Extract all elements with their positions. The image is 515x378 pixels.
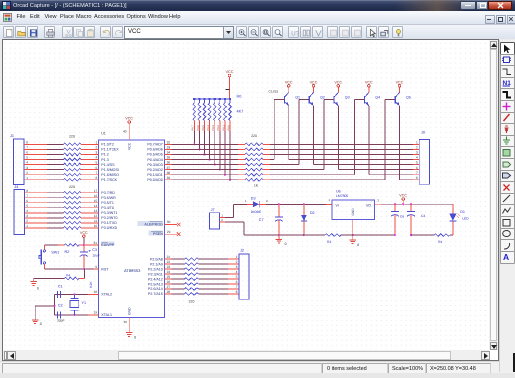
power VCC at EA [83, 235, 86, 238]
svg-text:P3.2/INT0: P3.2/INT0 [101, 216, 117, 220]
MDI child buttons [485, 15, 495, 25]
svg-text:8.2K: 8.2K [89, 281, 93, 288]
svg-text:3: 3 [416, 151, 418, 155]
op-amp U1 AT89S53 microcontroller body [99, 140, 165, 318]
ground at crystal [34, 306, 36, 320]
svg-text:3: 3 [26, 214, 28, 218]
connector J0 [419, 139, 429, 184]
svg-text:31: 31 [93, 241, 97, 245]
svg-text:VCC: VCC [399, 194, 407, 198]
svg-text:4: 4 [96, 156, 98, 160]
resistor pack RP1 220 x8 [64, 143, 82, 146]
svg-text:30: 30 [167, 220, 171, 224]
svg-text:26: 26 [167, 280, 171, 284]
diode D2 [303, 204, 305, 215]
svg-text:36: 36 [167, 161, 171, 165]
svg-text:8: 8 [416, 176, 418, 180]
svg-text:P2.2/A10: P2.2/A10 [148, 267, 163, 271]
svg-text:P0.3/AD3: P0.3/AD3 [147, 163, 162, 167]
svg-text:27: 27 [167, 285, 171, 289]
svg-text:U6: U6 [336, 190, 341, 194]
ground at C7 [278, 235, 280, 239]
svg-text:6: 6 [236, 280, 238, 284]
svg-text:VCC: VCC [80, 231, 88, 235]
svg-text:220: 220 [189, 299, 195, 303]
svg-text:VCC: VCC [310, 80, 318, 84]
ground at R4 [33, 278, 35, 281]
svg-text:3: 3 [96, 151, 98, 155]
wire D3 to U6 VI [259, 203, 266, 205]
svg-text:P3.4/T0: P3.4/T0 [101, 206, 114, 210]
svg-text:P2.6/A14: P2.6/A14 [148, 287, 163, 291]
crystal Y1 [74, 294, 76, 298]
svg-text:2: 2 [96, 145, 98, 149]
svg-text:4: 4 [26, 209, 28, 213]
svg-text:P0.5: P0.5 [202, 125, 205, 131]
power VCC at Q5 [398, 85, 401, 88]
svg-text:P2.3/A11: P2.3/A11 [148, 272, 163, 276]
svg-text:P0.4/AD4: P0.4/AD4 [147, 158, 162, 162]
svg-text:J7: J7 [211, 208, 215, 212]
svg-text:1K: 1K [254, 184, 259, 188]
regulator U6 LM7805 [332, 200, 374, 220]
svg-text:P3.7/RD: P3.7/RD [101, 191, 115, 195]
svg-text:C2: C2 [58, 304, 63, 308]
wires R0 to P0 rows with junctions [193, 99, 195, 103]
svg-text:Q5: Q5 [406, 96, 411, 100]
toolbar [0, 25, 515, 39]
svg-text:9: 9 [95, 265, 97, 269]
power VCC at Q1 [287, 85, 290, 88]
diode D3 [253, 201, 259, 207]
svg-text:1: 1 [416, 140, 418, 144]
wire Q5 emitter down [399, 106, 401, 180]
wires P0 rows left of series resistors [172, 143, 239, 145]
capacitor C3 [83, 245, 85, 252]
svg-text:10: 10 [94, 224, 98, 228]
svg-text:P2.1/A9: P2.1/A9 [150, 262, 163, 266]
U1 pin 20 GND stub [128, 318, 130, 333]
svg-text:220: 220 [251, 134, 257, 138]
capacitor C2 [56, 311, 58, 318]
svg-text:4: 4 [26, 161, 28, 165]
svg-text:J0: J0 [421, 130, 425, 134]
right tool palette [499, 40, 515, 372]
svg-text:2: 2 [26, 171, 28, 175]
svg-text:8: 8 [236, 290, 238, 294]
app icon [2, 1, 11, 10]
transistor Q2 [308, 96, 310, 104]
ground at U1 GND [126, 332, 132, 334]
wire J7 pin1 to D3 [220, 216, 225, 218]
svg-text:P2.7/A15: P2.7/A15 [148, 292, 163, 296]
svg-text:10uF: 10uF [92, 254, 100, 258]
svg-text:13: 13 [94, 209, 98, 213]
svg-text:6: 6 [416, 166, 418, 170]
svg-text:P1.0/T2: P1.0/T2 [101, 143, 114, 147]
svg-text:PSEN: PSEN [153, 232, 163, 236]
svg-text:P1.4/SS: P1.4/SS [101, 163, 115, 167]
svg-text:P0.0: P0.0 [227, 125, 230, 131]
svg-text:AT89S53: AT89S53 [124, 268, 141, 273]
wire Q3 base down [323, 99, 325, 169]
svg-text:ALE/PROG: ALE/PROG [144, 222, 163, 226]
svg-text:7: 7 [416, 171, 418, 175]
svg-text:P2.4/A12: P2.4/A12 [148, 277, 163, 281]
svg-text:Q4: Q4 [375, 96, 380, 100]
power VCC at Q4 [368, 85, 371, 88]
wire EA row [44, 244, 58, 246]
svg-text:25: 25 [167, 275, 171, 279]
svg-text:8: 8 [96, 176, 98, 180]
wire Q5 base down [384, 99, 386, 179]
svg-text:VCC: VCC [125, 117, 133, 121]
svg-text:P0.7: P0.7 [192, 125, 195, 131]
svg-text:5: 5 [236, 275, 238, 279]
wire Q2 base down [298, 99, 300, 164]
svg-text:1: 1 [26, 224, 28, 228]
svg-text:J4: J4 [14, 185, 18, 189]
svg-text:GND: GND [128, 307, 132, 315]
svg-text:XTAL2: XTAL2 [101, 293, 112, 297]
U1 pin ALE/PROG [138, 221, 164, 226]
title bar [0, 0, 515, 11]
svg-text:39: 39 [167, 176, 171, 180]
svg-text:22: 22 [167, 260, 171, 264]
svg-text:17: 17 [94, 189, 98, 193]
svg-text:VCC: VCC [226, 70, 234, 74]
svg-text:7: 7 [96, 171, 98, 175]
svg-text:28: 28 [167, 290, 171, 294]
U1 right stubs P0 and P2 with pin numbers [165, 143, 172, 145]
svg-text:5: 5 [26, 156, 28, 160]
svg-text:P1.1/T2EX: P1.1/T2EX [101, 148, 119, 152]
power VCC at Q2 [312, 85, 315, 88]
svg-text:P0.7/AD7: P0.7/AD7 [147, 143, 162, 147]
svg-text:P2.0/A8: P2.0/A8 [150, 257, 163, 261]
svg-text:35: 35 [167, 156, 171, 160]
wire XTAL2 row [55, 293, 88, 295]
svg-text:2: 2 [416, 145, 418, 149]
svg-text:R2: R2 [65, 250, 70, 254]
svg-text:LED: LED [462, 216, 469, 220]
wire Q4 base down [353, 99, 355, 174]
svg-text:32: 32 [167, 140, 171, 144]
svg-text:D1: D1 [460, 210, 465, 214]
svg-text:7: 7 [26, 145, 28, 149]
svg-text:P0.6: P0.6 [197, 125, 200, 131]
connector J1 [13, 139, 24, 185]
svg-text:34: 34 [167, 151, 171, 155]
capacitor C1 [56, 291, 58, 298]
U1 pin 40 VCC stub [128, 124, 130, 141]
wire XTAL1 row [55, 314, 88, 316]
wire Q1 emitter down [288, 106, 290, 160]
transistor Q3 [333, 96, 335, 104]
svg-text:EA/VPP: EA/VPP [101, 243, 115, 247]
grid dots [3, 40, 489, 350]
connector J2 [239, 254, 249, 299]
svg-text:P0.0/AD0: P0.0/AD0 [147, 178, 162, 182]
svg-text:P0.5/AD5: P0.5/AD5 [147, 153, 162, 157]
svg-text:GND: GND [351, 208, 355, 216]
wire U6 GND to rail [352, 220, 354, 236]
svg-text:6: 6 [26, 199, 28, 203]
svg-text:8: 8 [26, 140, 28, 144]
svg-text:VCC: VCC [334, 80, 342, 84]
svg-text:5: 5 [416, 161, 418, 165]
svg-text:11: 11 [94, 219, 98, 223]
svg-text:P3.3/INT1: P3.3/INT1 [101, 211, 117, 215]
U1 left stubs [94, 143, 99, 145]
svg-text:R4: R4 [438, 240, 442, 244]
svg-text:37: 37 [167, 166, 171, 170]
power VCC at regulator output [402, 198, 405, 201]
svg-text:2: 2 [236, 260, 238, 264]
ground at U6 [352, 235, 354, 240]
svg-text:P1.2: P1.2 [101, 153, 108, 157]
wire Q2 emitter down [313, 106, 315, 165]
svg-text:VCC: VCC [128, 142, 132, 150]
svg-text:19: 19 [93, 311, 97, 315]
svg-text:33pF: 33pF [57, 319, 65, 323]
svg-text:15: 15 [94, 199, 98, 203]
svg-text:P0.4: P0.4 [207, 125, 210, 131]
LED D1 [450, 234, 453, 236]
power VCC above R0 [228, 74, 231, 77]
svg-text:P1.6/MISO: P1.6/MISO [101, 173, 119, 177]
black corner artifact [513, 353, 515, 372]
wire Q1 base down [273, 99, 275, 159]
svg-text:D2: D2 [310, 211, 315, 215]
svg-text:R0: R0 [237, 95, 242, 99]
capacitor C4 [410, 204, 412, 211]
svg-text:0: 0 [40, 322, 42, 326]
transistor Q4 [364, 96, 366, 104]
svg-text:C1815: C1815 [269, 90, 279, 94]
connector J4 [14, 190, 25, 235]
combo box [124, 26, 234, 39]
svg-text:P1.3: P1.3 [101, 158, 108, 162]
svg-text:VCC: VCC [365, 80, 373, 84]
svg-text:Y1: Y1 [82, 301, 87, 305]
wire VCC to R0 common bar [229, 77, 231, 99]
power VCC above U1 [128, 121, 131, 124]
resistor pack RP3 220 x8 [245, 143, 263, 146]
wire C1 C2 join [54, 294, 56, 315]
U1 pin PSEN [149, 231, 164, 236]
svg-text:VI: VI [336, 204, 339, 208]
svg-text:R3: R3 [327, 240, 331, 244]
svg-text:C1: C1 [58, 284, 63, 288]
wire U6 VO rail [375, 203, 382, 205]
svg-text:29: 29 [167, 230, 171, 234]
svg-text:C7: C7 [259, 218, 264, 222]
resistor R4 LED [434, 234, 450, 237]
svg-text:6: 6 [26, 151, 28, 155]
svg-text:P1.7/SCK: P1.7/SCK [101, 178, 117, 182]
resistor network R0 elements [193, 103, 196, 121]
svg-text:4: 4 [416, 156, 418, 160]
svg-text:P1.5/MOSI: P1.5/MOSI [101, 168, 119, 172]
svg-text:P3.6/WR: P3.6/WR [101, 196, 116, 200]
resistor pack RP2 220 x8 [64, 191, 82, 194]
svg-text:P0.2/AD2: P0.2/AD2 [147, 168, 162, 172]
connector J7 [210, 213, 220, 229]
wire Q4 emitter down [368, 106, 370, 175]
no-connect PSEN [165, 233, 178, 235]
svg-text:LM7805: LM7805 [336, 194, 348, 198]
horizontal scrollbar [3, 350, 489, 360]
svg-text:16: 16 [94, 194, 98, 198]
resistor R4 8.2K to ground [83, 269, 85, 278]
svg-text:P0.2: P0.2 [217, 125, 220, 131]
svg-text:Q3: Q3 [345, 96, 350, 100]
svg-text:0: 0 [357, 243, 359, 247]
svg-text:R4: R4 [66, 273, 70, 277]
svg-text:1: 1 [96, 140, 98, 144]
svg-text:18: 18 [93, 290, 97, 294]
svg-text:RST: RST [101, 267, 109, 271]
svg-text:P0.1: P0.1 [222, 125, 225, 131]
svg-text:24: 24 [167, 270, 171, 274]
U1 pin EA/VPP [101, 242, 115, 247]
svg-text:7: 7 [26, 194, 28, 198]
svg-text:VO: VO [366, 204, 371, 208]
svg-text:12: 12 [94, 214, 98, 218]
svg-text:P3.1/TXD: P3.1/TXD [101, 221, 117, 225]
svg-text:P0.6/AD6: P0.6/AD6 [147, 148, 162, 152]
menu bar [0, 11, 515, 25]
resistor network R0 4K7 common bar [194, 98, 230, 100]
svg-text:0: 0 [134, 336, 136, 340]
svg-text:40: 40 [123, 130, 127, 134]
power VCC at Q3 [337, 85, 340, 88]
wire rail to R4 LED resistor [411, 234, 434, 236]
svg-text:7: 7 [236, 285, 238, 289]
svg-text:SW1: SW1 [51, 250, 59, 254]
svg-text:U1: U1 [101, 132, 106, 136]
transistor Q1 [283, 96, 285, 104]
wires J1 to P1 resistors [24, 143, 47, 145]
capacitor C7 [278, 204, 280, 217]
lower rail with resistor R3 [279, 234, 325, 236]
svg-text:DIODE: DIODE [251, 210, 262, 214]
svg-text:P2.5/A13: P2.5/A13 [148, 282, 163, 286]
svg-text:P3.0/RXD: P3.0/RXD [101, 226, 117, 230]
window buttons [460, 1, 476, 10]
svg-text:1: 1 [236, 255, 238, 259]
svg-text:C4: C4 [421, 214, 425, 218]
svg-text:VCC: VCC [396, 80, 404, 84]
vertical scrollbar [489, 40, 498, 350]
transistor Q5 [394, 96, 396, 104]
switch SW1 [43, 245, 45, 250]
svg-text:4K7: 4K7 [237, 110, 244, 114]
svg-text:38: 38 [167, 171, 171, 175]
svg-text:21: 21 [167, 255, 171, 259]
svg-text:5: 5 [26, 204, 28, 208]
wires P0 rows right of resistors [263, 143, 270, 145]
wires J4 to P3 resistors [25, 192, 48, 194]
svg-text:P0.1/AD1: P0.1/AD1 [147, 173, 162, 177]
svg-text:14: 14 [94, 204, 98, 208]
svg-text:P3.5/T1: P3.5/T1 [101, 201, 114, 205]
svg-text:5: 5 [96, 161, 98, 165]
resistor pack RP4 220 x8 [185, 258, 199, 261]
svg-text:J2: J2 [240, 248, 244, 252]
svg-text:1: 1 [26, 176, 28, 180]
svg-text:VCC: VCC [285, 80, 293, 84]
svg-text:220: 220 [69, 135, 75, 139]
svg-text:P0.3: P0.3 [212, 125, 215, 131]
svg-text:6: 6 [96, 166, 98, 170]
wire J7 pin2 to ground rail [220, 221, 225, 223]
wire Q3 emitter down [337, 106, 339, 170]
svg-text:3: 3 [236, 265, 238, 269]
wire RST row [44, 268, 93, 270]
svg-text:220: 220 [69, 185, 75, 189]
svg-text:0: 0 [37, 286, 39, 290]
status bar [0, 361, 515, 374]
capacitor C6 [394, 204, 396, 211]
svg-text:D3: D3 [251, 196, 256, 200]
svg-text:C6: C6 [400, 215, 404, 219]
svg-text:4: 4 [236, 270, 238, 274]
svg-text:C3: C3 [92, 248, 97, 252]
resistor R2 [64, 244, 79, 247]
wires P2 rows [172, 258, 185, 260]
no-connect ALE [165, 224, 178, 226]
svg-text:8: 8 [26, 189, 28, 193]
svg-text:33: 33 [167, 145, 171, 149]
svg-text:0: 0 [285, 242, 287, 246]
svg-text:XTAL1: XTAL1 [101, 313, 112, 317]
svg-text:A: A [503, 252, 509, 262]
svg-text:J1: J1 [10, 134, 14, 138]
svg-text:20: 20 [124, 320, 128, 324]
svg-text:3: 3 [26, 166, 28, 170]
svg-text:2: 2 [26, 219, 28, 223]
svg-text:23: 23 [167, 265, 171, 269]
